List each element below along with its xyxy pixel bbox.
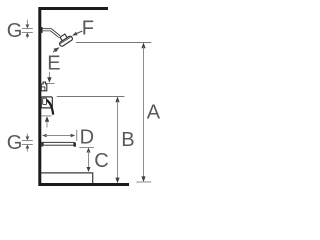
valve handle lever — [46, 100, 53, 115]
valve bottom arrow — [45, 116, 49, 122]
svg-text:G: G — [7, 132, 23, 154]
F leader arrow upper — [76, 31, 82, 34]
tub spout mouth — [74, 142, 77, 147]
dimension B line — [115, 97, 119, 103]
svg-text:G: G — [7, 20, 23, 42]
svg-text:E: E — [47, 52, 60, 74]
reference line valve level — [57, 96, 125, 98]
valve stub tick — [45, 83, 55, 85]
dimension D line — [42, 134, 47, 138]
dimension C top tick — [79, 147, 94, 149]
dimension D end tick — [76, 130, 78, 141]
valve handle base — [43, 98, 47, 104]
dimension G bottom ticks — [22, 141, 33, 145]
tub spout body — [43, 142, 74, 145]
dimension E arrow — [48, 72, 50, 78]
shower arm pipe — [43, 30, 60, 37]
wall — [40, 9, 129, 185]
svg-text:D: D — [80, 126, 94, 148]
dimension G top arrows — [26, 20, 30, 39]
svg-text:F: F — [82, 18, 94, 40]
dimension A line — [141, 43, 145, 49]
tub spout flange — [41, 142, 43, 147]
shower head — [56, 32, 73, 47]
valve escutcheon — [41, 97, 52, 108]
shower arm flange — [40, 27, 42, 33]
F arrow lower — [53, 47, 59, 52]
dimension G top ticks — [22, 29, 33, 33]
svg-text:B: B — [121, 129, 134, 151]
reference line shower head level — [76, 42, 151, 44]
dimension C line — [87, 148, 91, 153]
dimension G bottom arrows — [26, 134, 30, 152]
valve supply stub — [41, 82, 47, 91]
tub rim — [41, 173, 92, 183]
dimension A bottom tick — [136, 181, 151, 183]
valve bottom tick — [41, 115, 51, 117]
svg-text:A: A — [147, 102, 161, 124]
svg-text:C: C — [94, 150, 108, 172]
